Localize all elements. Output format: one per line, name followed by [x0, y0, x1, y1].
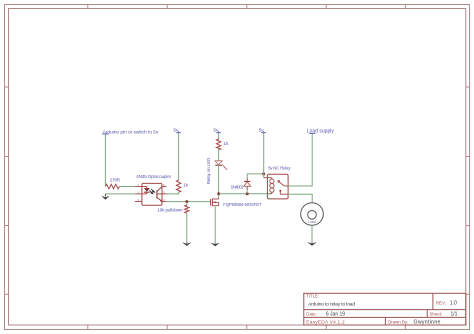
svg-text:1/1: 1/1	[451, 312, 458, 318]
node gate junction	[185, 200, 188, 203]
wire	[167, 192, 179, 194]
wire	[288, 194, 312, 203]
svg-text:Sheet:: Sheet:	[430, 312, 443, 317]
net flag Load supply	[307, 128, 335, 134]
wire	[219, 193, 268, 195]
op-amp U1 4N35 optocoupler body	[136, 174, 171, 205]
wire	[218, 149, 220, 160]
svg-text:1.0: 1.0	[450, 301, 457, 307]
svg-text:10k pulldown: 10k pulldown	[157, 208, 183, 213]
pin 5	[162, 190, 167, 194]
pin 6	[162, 183, 167, 187]
svg-text:1N4001: 1N4001	[231, 184, 244, 189]
wire	[311, 225, 313, 242]
wire	[247, 173, 264, 175]
svg-text:Arduino pin or switch to 5v: Arduino pin or switch to 5v	[103, 129, 159, 135]
label Relay on LED (vertical)	[206, 158, 211, 185]
wire	[167, 201, 211, 203]
svg-text:270R: 270R	[110, 177, 121, 182]
ground	[307, 242, 316, 246]
svg-text:5v NC Relay: 5v NC Relay	[268, 165, 291, 170]
resistor 270R	[105, 177, 120, 189]
ground	[211, 243, 220, 247]
pin 4	[162, 198, 167, 202]
pin 2	[135, 190, 142, 194]
load M1	[301, 203, 324, 226]
svg-text:Load: Load	[308, 220, 315, 224]
svg-text:Arduino to relay to load: Arduino to relay to load	[308, 301, 355, 307]
net flag Arduino pin or switch to 5v	[102, 129, 159, 135]
svg-text:TITLE:: TITLE:	[306, 294, 319, 299]
border ticks right	[466, 87, 470, 294]
svg-text:EasyEDA V4.1.2: EasyEDA V4.1.2	[306, 319, 345, 325]
svg-text:4N35 Optocoupler: 4N35 Optocoupler	[136, 174, 171, 179]
ground	[182, 242, 191, 246]
wire	[120, 186, 135, 188]
svg-text:6 Jan 19: 6 Jan 19	[326, 312, 345, 318]
wire	[105, 193, 134, 195]
wire	[178, 133, 180, 181]
node drain junction	[217, 192, 220, 195]
resistor 1k (LED series)	[216, 139, 229, 149]
relay K1 5v NC relay	[267, 165, 291, 199]
relay switch	[278, 180, 288, 194]
opto phototransistor	[157, 187, 162, 202]
wire	[263, 133, 265, 178]
title block texts	[306, 294, 457, 326]
svg-text:REV:: REV:	[436, 300, 446, 305]
net flag 5v (right)	[259, 127, 266, 132]
node 5v relay junction	[262, 172, 265, 175]
wire	[288, 133, 312, 186]
svg-text:Drawn By:: Drawn By:	[388, 319, 408, 324]
net flag 5v (middle)	[213, 127, 221, 132]
svg-text:Date:: Date:	[306, 312, 317, 317]
net flag 5v (left)	[173, 127, 181, 132]
border ticks left	[5, 87, 9, 294]
wire	[214, 206, 216, 242]
wire	[218, 133, 220, 140]
svg-text:Relay on LED: Relay on LED	[206, 158, 211, 185]
ground	[101, 194, 109, 200]
opto internal LED	[142, 187, 150, 194]
pin 1	[135, 183, 142, 187]
resistor 1k (opto collector pull-up)	[176, 180, 188, 192]
opto light arrows	[149, 189, 154, 194]
border ticks bottom	[88, 325, 406, 330]
wire	[218, 165, 220, 194]
relay coil	[264, 178, 274, 194]
svg-text:Gwyntinne: Gwyntinne	[414, 320, 441, 326]
svg-text:1k: 1k	[183, 183, 189, 188]
diode D1 1N4001	[231, 174, 251, 194]
title block frame	[304, 293, 466, 325]
pin 3	[135, 198, 142, 202]
transistor Q1 FQP50N06 MOSFET	[211, 194, 262, 207]
resistor 10k pulldown	[157, 202, 189, 214]
border ticks top	[88, 5, 406, 9]
node diode junction	[246, 192, 249, 195]
wire	[104, 134, 106, 187]
wire	[186, 213, 188, 242]
LED relay-on indicator	[215, 161, 227, 170]
svg-text:1k: 1k	[223, 141, 229, 146]
svg-text:FQP50N06 MOSFET: FQP50N06 MOSFET	[223, 202, 262, 207]
